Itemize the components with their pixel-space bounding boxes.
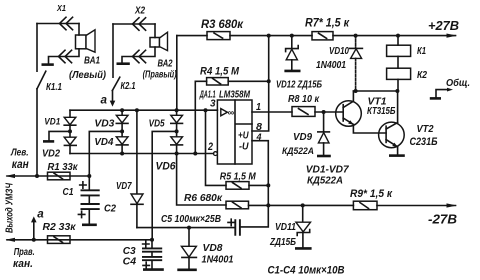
zener VD12 — [276, 36, 322, 91]
ground bar under VT2 — [389, 154, 405, 157]
resistor R4 — [195, 65, 268, 85]
svg-text:ВА1: ВА1 — [84, 56, 100, 67]
diode VD2 — [42, 131, 76, 159]
op-amp U1 DA1.1 LM358 — [199, 88, 252, 164]
svg-text:VD2: VD2 — [42, 149, 60, 160]
diode VD5 — [149, 110, 183, 131]
label VD1-VD7 type — [306, 164, 350, 187]
wire: left channel input arrow — [6, 174, 90, 178]
svg-text:-U: -U — [239, 142, 249, 153]
svg-text:VD4: VD4 — [94, 137, 113, 148]
node: bottom rail d2 — [175, 152, 179, 156]
svg-text:2: 2 — [207, 141, 213, 153]
svg-text:X2: X2 — [134, 6, 145, 17]
wire: left channel from X1 down — [36, 24, 38, 72]
resistor R1 — [48, 161, 79, 180]
node: R1 wire d1 — [35, 174, 39, 178]
svg-text:кан: кан — [12, 159, 29, 171]
svg-text:VD11: VD11 — [275, 221, 296, 233]
resistor R2 — [43, 221, 77, 244]
svg-text:VD3: VD3 — [94, 119, 114, 130]
svg-text:VD6: VD6 — [156, 161, 177, 173]
node: VD1/VD2 mid — [68, 129, 72, 133]
label right channel — [13, 246, 35, 270]
svg-text:VD7: VD7 — [116, 181, 132, 192]
speaker BA1 — [69, 30, 106, 81]
ground bar under VD8 — [177, 268, 197, 271]
svg-text:(Правый): (Правый) — [143, 70, 177, 81]
svg-text:LM358М: LM358М — [219, 88, 250, 100]
wire: inverting bottom rail — [70, 153, 214, 155]
node: VD3/VD4 mid — [120, 129, 124, 133]
switch contact K1.1 — [37, 71, 62, 93]
node: R8/VD9/VT1 — [322, 110, 326, 114]
node: rail j2 — [290, 34, 294, 38]
diode VD7 — [116, 110, 143, 227]
svg-text:С5 100мк×25В: С5 100мк×25В — [161, 213, 221, 225]
node: top rail d3 — [175, 108, 179, 112]
svg-text:VT2: VT2 — [417, 123, 434, 135]
svg-text:а: а — [37, 206, 44, 220]
node a (top reference arrow) — [101, 91, 116, 107]
svg-text:К1: К1 — [417, 46, 426, 57]
arrow tip +27V — [447, 34, 457, 38]
ground bar under VD9 — [317, 155, 331, 158]
diode VD4 — [94, 131, 128, 153]
node: rail j4 — [396, 34, 400, 38]
node: top rail d4 — [204, 108, 208, 112]
connector X2 — [113, 6, 155, 38]
node: collector bus d1 — [354, 89, 358, 93]
ground bar under VD11 — [295, 247, 312, 250]
svg-text:-27В: -27В — [428, 212, 457, 226]
resistor R5 — [206, 110, 269, 189]
wire: non-inverting top rail — [70, 109, 217, 111]
diode VD1 — [44, 110, 76, 131]
wire: -27V rail — [268, 204, 455, 206]
svg-text:R2 33к: R2 33к — [43, 221, 77, 233]
svg-text:Выход УМЗЧ: Выход УМЗЧ — [5, 182, 16, 233]
svg-text:VD9: VD9 — [293, 132, 312, 143]
node: R2 wire d2 — [150, 238, 154, 242]
wire: +27V rail — [177, 35, 456, 37]
wire: BA2 return to chassis — [122, 47, 155, 63]
svg-text:кан.: кан. — [13, 258, 33, 270]
node: R4 riser — [267, 79, 271, 83]
node: top rail d1 — [120, 108, 124, 112]
svg-text:VD10: VD10 — [329, 45, 349, 57]
transistor VT1 — [336, 91, 396, 133]
svg-text:ВА2: ВА2 — [158, 59, 173, 70]
node: -U R5 — [266, 183, 270, 187]
capacitor C5 — [161, 205, 268, 235]
svg-text:+U: +U — [238, 131, 249, 142]
svg-text:∞: ∞ — [228, 107, 235, 117]
svg-text:VD1: VD1 — [44, 117, 60, 128]
node: top rail d2 — [135, 108, 139, 112]
node: R1 wire d2 — [87, 174, 91, 178]
svg-text:R3 680к: R3 680к — [201, 19, 244, 31]
chassis bar under X1 — [42, 63, 54, 66]
svg-text:С1-С4 10мк×10В: С1-С4 10мк×10В — [268, 264, 345, 276]
node: VD5/VD6 mid — [175, 129, 179, 133]
capacitor C1 — [63, 176, 100, 198]
diode VD6 — [156, 131, 183, 172]
connector X1 — [37, 3, 79, 35]
relay coil K1 — [387, 36, 427, 57]
diode VD3 — [94, 110, 128, 131]
svg-text:R6 680к: R6 680к — [184, 192, 223, 204]
chassis bar under VD12 — [284, 70, 300, 73]
diode VD10 — [316, 36, 362, 91]
svg-text:VD5: VD5 — [149, 119, 165, 130]
svg-text:R5 1,5 М: R5 1,5 М — [220, 171, 256, 183]
svg-text:К2: К2 — [417, 70, 427, 81]
zener VD11 — [269, 205, 310, 247]
wire: -U dropper pin 4 — [252, 141, 268, 206]
svg-text:С231Б: С231Б — [410, 136, 438, 148]
svg-text:КТ315Б: КТ315Б — [367, 105, 396, 117]
switch contact K2.1 — [112, 77, 136, 92]
chassis bar left of VD2 — [43, 140, 54, 143]
ground bar under C2 — [82, 224, 97, 227]
resistor R3 — [201, 19, 244, 40]
resistor R8 — [252, 93, 343, 116]
svg-text:C4: C4 — [123, 255, 137, 267]
wire: stub VD5/VD6 to C3/C4 node — [152, 131, 176, 239]
node: collector bus d2 — [395, 89, 399, 93]
svg-text:+27В: +27В — [428, 19, 459, 33]
svg-text:3: 3 — [210, 99, 216, 110]
ground: common Obshch — [430, 77, 470, 99]
diode VD8 — [181, 228, 233, 269]
pin 2 inversion circle — [214, 152, 218, 156]
label left channel — [10, 147, 29, 171]
svg-text:C1: C1 — [63, 186, 74, 198]
svg-text:R1 33к: R1 33к — [48, 161, 79, 173]
wire: +U riser pin 8 — [252, 36, 269, 131]
svg-text:R4 1,5 М: R4 1,5 М — [200, 65, 240, 77]
wire: R3 to diode rail vertical — [176, 36, 178, 111]
svg-text:К2.1: К2.1 — [121, 81, 136, 92]
ground bar under C4 — [143, 268, 164, 271]
svg-text:КД522А: КД522А — [307, 175, 343, 186]
node: bottom rail d1 — [120, 152, 124, 156]
wire: collector bus — [353, 90, 397, 92]
wire: R4 to inverting rail vertical — [194, 81, 196, 153]
node: rail j3 — [354, 34, 358, 38]
wire: right channel from X2 down — [112, 24, 114, 77]
node: bottom rail d3 — [193, 152, 197, 156]
svg-text:КД522А: КД522А — [282, 146, 314, 157]
svg-text:R7* 1,5 к: R7* 1,5 к — [305, 17, 350, 29]
capacitor C4 — [123, 252, 163, 269]
node: R2 wire d1 — [32, 238, 36, 242]
svg-text:(Левый): (Левый) — [69, 69, 106, 81]
node: rail j1 — [267, 34, 271, 38]
transistor VT2 — [379, 91, 438, 155]
svg-text:VD12 ZД15Б: VD12 ZД15Б — [276, 79, 322, 90]
wire: C5 bus — [137, 227, 235, 229]
node: -U R6 -27 — [266, 203, 270, 207]
svg-text:ZД15Б: ZД15Б — [269, 236, 296, 248]
wire: K1.1 down to R1 node — [36, 89, 38, 176]
svg-text:1N4001: 1N4001 — [316, 59, 346, 71]
svg-text:Прав.: Прав. — [14, 246, 35, 258]
resistor R7 — [305, 17, 350, 40]
wire: right channel input arrow — [6, 238, 153, 242]
wire: stub VD3/VD4 to R1/C1 node — [89, 131, 122, 176]
svg-text:а: а — [101, 93, 108, 107]
wire: BA1 return to chassis — [49, 49, 80, 64]
svg-text:К1.1: К1.1 — [46, 82, 62, 93]
node a (bottom reference arrow) — [31, 206, 44, 240]
chassis bar under X2 — [117, 62, 130, 65]
svg-text:R8 10 к: R8 10 к — [288, 93, 320, 105]
svg-text:R9* 1,5 к: R9* 1,5 к — [350, 188, 393, 200]
wire: stub to chassis from VD1/VD2 — [49, 131, 70, 140]
svg-text:C2: C2 — [104, 202, 116, 214]
diode VD9 — [282, 112, 329, 157]
svg-text:Лев.: Лев. — [10, 147, 28, 159]
capacitor C2 — [78, 196, 116, 223]
svg-text:VD1-VD7: VD1-VD7 — [306, 164, 350, 176]
relay coil K2 — [387, 56, 428, 91]
node: VD11 tap — [301, 203, 305, 207]
svg-text:1N4001: 1N4001 — [202, 253, 234, 265]
resistor R9 — [350, 188, 393, 210]
speaker BA2 — [143, 32, 177, 80]
svg-text:Общ.: Общ. — [446, 77, 470, 89]
svg-text:X1: X1 — [56, 3, 66, 13]
arrow tip -27V — [447, 203, 457, 207]
node: C5 bus VD8 — [187, 226, 191, 230]
capacitor C3 — [123, 240, 163, 257]
resistor R6 — [177, 154, 269, 209]
